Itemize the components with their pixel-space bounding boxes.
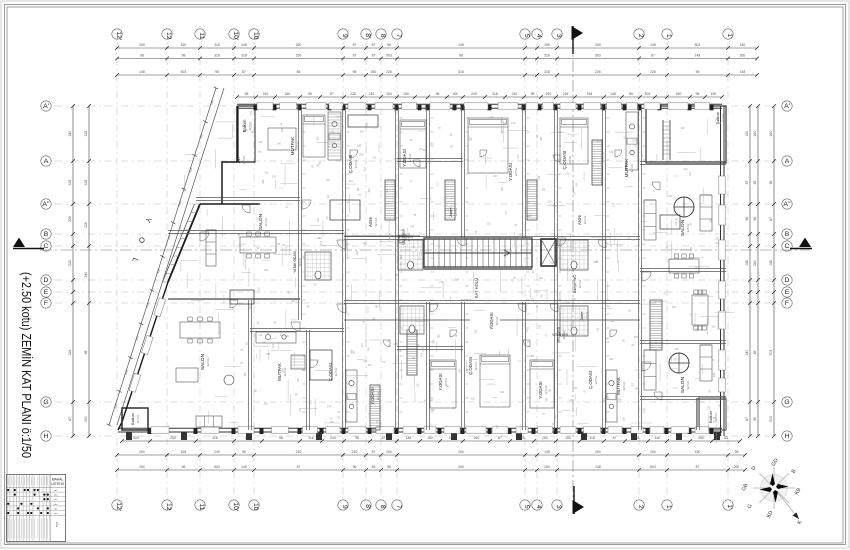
svg-text:145: 145 [572,298,577,301]
svg-text:503: 503 [695,43,701,47]
svg-text:98: 98 [355,436,359,440]
svg-text:330: 330 [501,119,504,124]
svg-text:12.5 m²: 12.5 m² [578,279,582,288]
svg-text:11: 11 [198,503,205,510]
svg-text:96: 96 [242,450,246,454]
svg-text:260: 260 [740,54,746,58]
svg-text:145: 145 [417,383,420,388]
svg-text:12.5 m²: 12.5 m² [264,217,268,226]
svg-text:330: 330 [264,269,269,272]
lower band furniture [346,370,357,422]
svg-text:12: 12 [165,503,172,511]
svg-text:B: B [44,231,49,238]
svg-text:120: 120 [689,171,692,176]
svg-text:330: 330 [634,336,639,339]
svg-text:240: 240 [745,350,749,356]
diagonal wall window boxes [129,298,165,393]
svg-text:226: 226 [84,222,88,228]
svg-text:503: 503 [214,465,220,469]
svg-text:385: 385 [357,144,362,147]
svg-text:120: 120 [668,195,673,198]
svg-text:8': 8' [364,504,371,509]
svg-text:330: 330 [475,329,478,334]
svg-text:210: 210 [439,281,444,284]
table bottom vertical texts [7,519,9,539]
svg-text:Ç.ODASI: Ç.ODASI [562,151,567,170]
svg-text:318: 318 [492,92,498,96]
svg-text:210: 210 [302,369,307,372]
svg-text:150: 150 [544,43,550,47]
section flag left [13,248,44,250]
grid axis bubbles top [112,29,122,39]
grid axis bubbles left [41,101,51,111]
svg-text:240: 240 [352,450,358,454]
svg-text:98: 98 [696,92,700,96]
svg-text:210: 210 [683,168,688,171]
right dimension lines [749,106,751,436]
svg-text:H: H [785,433,790,440]
svg-text:210: 210 [295,299,298,304]
svg-text:145: 145 [596,140,601,143]
svg-text:150: 150 [181,43,187,47]
svg-text:385: 385 [690,247,693,252]
svg-text:318: 318 [458,70,464,74]
svg-text:385: 385 [540,136,543,141]
interior wall tick dims [303,118,646,412]
top dimension lines [117,47,757,49]
svg-text:503: 503 [769,350,773,356]
svg-text:503: 503 [645,92,651,96]
svg-text:385: 385 [281,128,284,133]
svg-text:120: 120 [365,148,368,153]
svg-text:330: 330 [394,217,399,220]
svg-text:145: 145 [410,225,415,228]
svg-text:210: 210 [318,237,323,240]
svg-text:210: 210 [517,154,520,159]
svg-text:2: 2 [637,34,644,38]
svg-text:330: 330 [398,350,403,353]
svg-text:98: 98 [84,351,88,355]
svg-text:385: 385 [262,179,265,184]
svg-text:240: 240 [214,450,220,454]
furniture upper rooms beds [303,115,325,157]
svg-text:260: 260 [474,436,480,440]
svg-text:503: 503 [133,436,139,440]
svg-text:330: 330 [326,179,331,182]
svg-text:12.5 m²: 12.5 m² [514,167,518,176]
svg-text:260: 260 [371,70,377,74]
svg-text:D: D [44,277,49,284]
svg-text:260: 260 [285,92,291,96]
svg-text:330: 330 [316,136,319,141]
svg-text:330: 330 [264,403,269,406]
building bottom outer wall [118,427,722,429]
svg-text:120: 120 [313,283,318,286]
svg-text:12': 12' [115,502,122,511]
svg-text:MUTFAK: MUTFAK [616,377,621,395]
svg-text:330: 330 [272,176,277,179]
svg-text:145: 145 [329,421,334,424]
svg-text:210: 210 [368,364,373,367]
svg-text:12: 12 [165,32,172,40]
svg-text:98: 98 [387,465,391,469]
svg-text:12.5 m²: 12.5 m² [298,257,302,266]
salon upper-right ceiling circle [674,197,694,217]
svg-text:148: 148 [745,260,749,266]
salon upper-left furniture [240,237,276,253]
svg-text:318: 318 [68,180,72,186]
svg-text:145: 145 [368,347,371,352]
svg-text:Y.ODASI: Y.ODASI [370,387,375,404]
svg-text:10: 10 [252,503,259,511]
interior vertical walls [298,106,300,320]
svg-text:226: 226 [68,216,72,222]
svg-text:96: 96 [753,417,757,421]
svg-text:148: 148 [241,43,247,47]
svg-text:150: 150 [403,92,409,96]
svg-text:120: 120 [525,328,528,333]
svg-text:260: 260 [139,465,145,469]
svg-text:9: 9 [341,505,348,509]
svg-text:C: C [785,243,790,250]
svg-text:210: 210 [496,424,499,429]
svg-text:330: 330 [433,339,436,344]
svg-text:210: 210 [612,202,615,207]
svg-text:96: 96 [696,70,700,74]
compass rose [741,457,804,525]
svg-text:Antre: Antre [580,311,584,320]
table dots [7,489,49,514]
svg-text:SALON: SALON [258,213,264,230]
svg-text:85: 85 [372,465,376,469]
svg-text:210: 210 [601,368,604,373]
svg-text:145: 145 [539,324,542,329]
svg-text:145: 145 [394,274,399,277]
svg-text:150: 150 [296,54,302,58]
svg-text:145: 145 [489,326,494,329]
svg-text:145: 145 [327,406,332,409]
svg-text:10': 10' [232,502,239,511]
svg-text:12.5 m²: 12.5 m² [562,330,566,339]
interior vertical walls lower band [248,300,250,430]
svg-text:226: 226 [350,92,356,96]
svg-text:120: 120 [400,254,403,259]
svg-text:318: 318 [181,450,187,454]
svg-text:318: 318 [587,92,593,96]
svg-text:120: 120 [547,200,552,203]
right wall window boxes [719,176,725,392]
svg-text:87: 87 [297,465,301,469]
furniture upper-left kitchen [328,112,341,160]
svg-text:85: 85 [297,70,301,74]
svg-text:H: H [44,433,49,440]
svg-text:385: 385 [695,267,700,270]
dining set right lower-middle [692,295,708,325]
svg-text:260: 260 [753,260,757,266]
svg-text:145: 145 [258,141,263,144]
svg-text:120: 120 [626,173,629,178]
svg-text:145: 145 [277,142,282,145]
svg-text:3: 3 [555,34,562,38]
lower-left apartment top wall [168,298,300,300]
svg-text:318: 318 [68,350,72,356]
svg-text:12.5 m²: 12.5 m² [474,361,478,370]
svg-text:145: 145 [532,298,535,303]
svg-text:145: 145 [359,153,364,156]
svg-text:12.5 m²: 12.5 m² [686,380,690,389]
svg-text:385: 385 [374,306,379,309]
svg-text:12.5 m²: 12.5 m² [585,311,589,320]
svg-text:120: 120 [445,209,450,212]
svg-text:145: 145 [297,378,300,383]
svg-text:240: 240 [512,92,518,96]
svg-text:148: 148 [740,70,746,74]
svg-text:LİSTESİ: LİSTESİ [51,481,64,486]
svg-text:330: 330 [386,188,389,193]
svg-text:385: 385 [501,186,504,191]
elevator [541,239,556,266]
svg-text:226: 226 [68,260,72,266]
svg-text:150: 150 [655,436,661,440]
svg-text:260: 260 [595,43,601,47]
svg-text:2: 2 [637,505,644,509]
svg-text:260: 260 [734,465,740,469]
svg-text:G: G [784,399,789,406]
svg-text:87: 87 [372,450,376,454]
svg-text:240: 240 [263,92,269,96]
svg-text:210: 210 [574,387,579,390]
furniture upper right kitchen [626,112,638,170]
svg-text:385: 385 [437,334,440,339]
svg-text:VESTİYER: VESTİYER [556,326,561,342]
svg-text:1: 1 [665,505,672,509]
svg-text:226: 226 [650,70,656,74]
building top outer wall [237,103,722,105]
svg-text:12.5 m²: 12.5 m² [354,159,358,168]
svg-text:145: 145 [489,116,494,119]
svg-text:VESTİYER: VESTİYER [401,228,406,244]
svg-text:Y.ODASI: Y.ODASI [402,149,407,167]
balcony diagonal band [168,204,200,282]
interior fine linework texture [181,116,734,444]
svg-text:B: B [785,231,790,238]
svg-text:240: 240 [330,436,336,440]
svg-text:87: 87 [651,54,655,58]
svg-text:98: 98 [531,92,535,96]
svg-text:12.5 m²: 12.5 m² [296,141,300,150]
svg-text:120: 120 [486,222,491,225]
salon upper-right furniture [644,200,656,240]
staircase core [424,238,532,268]
svg-text:98: 98 [140,54,144,58]
road boundary line [117,88,224,425]
svg-text:87: 87 [242,70,246,74]
svg-text:210: 210 [373,126,378,129]
svg-text:120: 120 [363,360,368,363]
svg-text:385: 385 [362,242,367,245]
svg-text:12.5 m²: 12.5 m² [407,232,411,241]
svg-text:385: 385 [530,355,535,358]
svg-text:226: 226 [386,70,392,74]
top wall sub-dimension row [237,96,722,98]
svg-text:10: 10 [252,32,259,40]
svg-text:210: 210 [631,382,634,387]
svg-text:330: 330 [360,131,365,134]
svg-text:Balkon: Balkon [131,413,135,425]
svg-text:210: 210 [244,129,249,132]
svg-text:9: 9 [341,34,348,38]
bathrooms [398,240,423,270]
svg-text:503: 503 [181,70,187,74]
bottom wall window boxes [151,427,709,433]
svg-text:98: 98 [436,92,440,96]
svg-text:96: 96 [182,465,186,469]
svg-text:12.5 m²: 12.5 m² [630,163,634,172]
vestibule band wall [344,319,470,321]
door arcs [200,150,662,400]
svg-text:120: 120 [369,412,372,417]
svg-text:87: 87 [696,465,700,469]
svg-text:A': A' [784,103,790,110]
svg-text:260: 260 [650,450,656,454]
svg-text:330: 330 [622,416,625,421]
svg-text:145: 145 [262,341,267,344]
svg-text:150: 150 [386,92,392,96]
svg-text:240: 240 [68,131,72,137]
svg-text:ANT: ANT [237,157,241,163]
svg-text:Banyo+WC: Banyo+WC [573,274,577,293]
svg-text:12.5 m²: 12.5 m² [408,153,412,162]
svg-text:G: G [43,399,48,406]
svg-text:330: 330 [712,326,717,329]
svg-text:145: 145 [675,221,678,226]
interior horizontal walls [196,197,300,199]
grid axis bubbles bottom [112,500,122,510]
svg-text:148: 148 [544,450,550,454]
svg-text:260: 260 [170,436,176,440]
svg-text:148: 148 [595,465,601,469]
svg-text:12.5 m²: 12.5 m² [242,155,246,164]
svg-text:12.5 m²: 12.5 m² [495,316,499,325]
svg-text:12.5 m²: 12.5 m² [374,217,378,226]
vertical grid lines [117,42,728,498]
svg-text:3: 3 [555,505,562,509]
svg-text:260: 260 [546,92,552,96]
svg-text:330: 330 [670,356,673,361]
svg-text:385: 385 [710,218,713,223]
svg-text:12.5 m²: 12.5 m² [136,414,140,423]
svg-text:87: 87 [330,92,334,96]
svg-text:260: 260 [84,416,88,422]
svg-text:Ç.ODASI: Ç.ODASI [588,371,593,389]
svg-text:87: 87 [353,43,357,47]
svg-text:318: 318 [214,43,220,47]
svg-text:85: 85 [724,436,728,440]
svg-text:87: 87 [769,217,773,221]
svg-text:5: 5 [523,505,530,509]
svg-text:D: D [785,277,790,284]
svg-text:260: 260 [458,450,464,454]
building right outer wall [720,106,722,436]
svg-text:98: 98 [182,54,186,58]
svg-text:120: 120 [327,194,330,199]
svg-text:F: F [44,300,48,307]
svg-text:145: 145 [458,368,461,373]
svg-text:145: 145 [603,398,606,403]
svg-text:E: E [44,289,49,296]
svg-text:210: 210 [500,391,505,394]
svg-text:120: 120 [258,287,261,292]
svg-text:120: 120 [541,294,544,299]
svg-text:E: E [785,289,790,296]
svg-text:148: 148 [241,465,247,469]
svg-text:330: 330 [538,175,541,180]
svg-text:330: 330 [715,238,720,241]
svg-text:MAHAL: MAHAL [52,478,64,482]
table vertical header texts [7,477,9,486]
svg-text:8: 8 [379,34,386,38]
svg-text:330: 330 [553,205,558,208]
section flag bottom [573,486,575,514]
svg-text:145: 145 [547,389,552,392]
svg-text:210: 210 [272,343,275,348]
svg-text:260: 260 [386,450,392,454]
svg-text:210: 210 [411,245,416,248]
svg-text:145: 145 [617,399,622,402]
svg-text:145: 145 [317,217,320,222]
svg-text:148: 148 [695,54,701,58]
svg-text:98: 98 [215,70,219,74]
svg-text:98: 98 [245,92,249,96]
svg-text:85: 85 [753,181,757,185]
svg-text:F: F [785,300,789,307]
svg-text:12.5 m²: 12.5 m² [622,381,626,390]
svg-text:150: 150 [745,131,749,137]
svg-text:330: 330 [265,171,270,174]
svg-text:SALON: SALON [680,219,686,236]
svg-text:145: 145 [493,175,498,178]
svg-text:96: 96 [387,43,391,47]
svg-text:12.5 m²: 12.5 m² [248,121,252,130]
svg-text:318: 318 [241,54,247,58]
svg-text:148: 148 [769,260,773,266]
svg-text:98: 98 [279,436,283,440]
svg-text:503: 503 [650,465,656,469]
svg-text:120: 120 [418,256,421,261]
svg-text:98: 98 [745,217,749,221]
svg-text:120: 120 [609,151,614,154]
svg-text:Y.ODASI: Y.ODASI [508,163,513,181]
svg-text:210: 210 [429,195,432,200]
svg-text:150: 150 [452,92,458,96]
svg-text:120: 120 [400,262,403,267]
svg-text:120: 120 [256,217,261,220]
svg-text:150: 150 [676,92,682,96]
balcony top-right [646,106,726,163]
svg-text:150: 150 [740,43,746,47]
svg-text:318: 318 [544,54,550,58]
section flag right [790,248,812,250]
salon lower-right furniture [644,350,656,390]
section flag top [572,26,574,54]
svg-text:210: 210 [337,416,342,419]
svg-text:12.5 m²: 12.5 m² [721,113,725,122]
svg-text:503: 503 [595,54,601,58]
svg-text:330: 330 [541,188,546,191]
svg-text:Antre: Antre [368,216,373,227]
svg-text:210: 210 [361,343,364,348]
svg-text:385: 385 [635,388,640,391]
